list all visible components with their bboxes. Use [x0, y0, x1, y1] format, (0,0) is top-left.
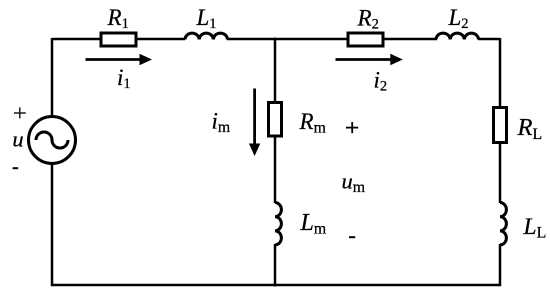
wire right vertical LL to bottom [499, 244, 502, 286]
wire bottom right [274, 284, 501, 287]
resistor Rm [269, 103, 282, 137]
inductor L2 [436, 33, 479, 39]
wire left vertical below source [51, 163, 54, 286]
wire R1 to L1 [136, 38, 185, 41]
source sine wave [36, 132, 68, 148]
wire middle vertical Rm to Lm [274, 136, 277, 203]
wire middle vertical Lm to bottom [274, 244, 277, 286]
wire top-left segment [52, 38, 101, 41]
inductor L1 [185, 33, 228, 39]
resistor R2 [348, 33, 383, 46]
arrow i1 [86, 58, 142, 61]
label + of source [14, 107, 26, 118]
resistor R1 [101, 33, 136, 46]
wire top junction to R2 [274, 38, 347, 41]
wire middle vertical top (node to Rm) [274, 39, 277, 102]
wire L2 to top-right corner [478, 38, 500, 41]
inductor LL [500, 203, 506, 246]
svg-text:u: u [12, 126, 23, 151]
arrow i2 [336, 58, 393, 61]
wire R2 to L2 [383, 38, 437, 41]
inductor Lm [275, 203, 281, 246]
arrow im [253, 89, 256, 146]
node top junction [274, 38, 277, 41]
resistor RL [494, 108, 507, 143]
label + of um [346, 122, 358, 133]
source U (AC) circle [29, 117, 76, 164]
label - of um [349, 236, 355, 238]
label - of source [13, 167, 19, 169]
wire left vertical above source [51, 38, 54, 117]
wire right vertical top (corner to RL) [499, 38, 502, 107]
node bottom junction [274, 284, 277, 287]
wire bottom left [51, 284, 276, 287]
wire L1 to top junction [227, 38, 276, 41]
wire right vertical RL to LL [499, 143, 502, 203]
